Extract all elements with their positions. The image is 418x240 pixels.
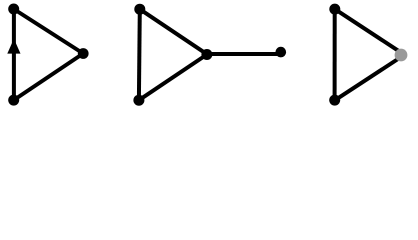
wire: G2 edge V1-V2 (left vertical) [137,9,142,100]
wire: G2 edge V1-V3 (top diagonal) [140,9,207,54]
graph G3: triangle with gray right node [329,4,407,106]
wire: G2 edge V3-V4 (horizontal pendant) [206,52,278,56]
wire: G3 edge V1-V2 (left vertical) [333,9,337,100]
node G2.V2 (bottom-left) [133,95,144,106]
node G1.V2 (bottom-left) [8,95,19,106]
node G1.V3 (right) [78,48,89,59]
graph G1: triangle with directed left edge [7,4,88,106]
node G3.V3 (right, gray) [395,49,408,62]
node G3.V1 (top-left) [329,4,340,15]
wire: G1 edge V2-V1 (left vertical, directed up) [12,9,16,100]
node G2.V4 (far right) [276,47,287,58]
node G3.V2 (bottom-left) [329,95,340,106]
graph G2: triangle with pendant edge [133,4,286,106]
node G1.V1 (top-left) [8,4,19,15]
wire: G3 edge V1-V3 (top diagonal) [335,9,401,52]
wire: G1 edge V1-V3 (top diagonal) [14,9,84,54]
wire: G2 edge V2-V3 (bottom diagonal) [139,55,207,101]
wire: G3 edge V2-V3 (bottom diagonal) [335,57,401,100]
node G2.V3 (center junction) [201,49,212,60]
wire: G1 edge V2-V3 (bottom diagonal) [14,54,84,101]
node G2.V1 (top-left) [134,4,145,15]
arrowhead on G1 left edge pointing up [7,39,20,54]
